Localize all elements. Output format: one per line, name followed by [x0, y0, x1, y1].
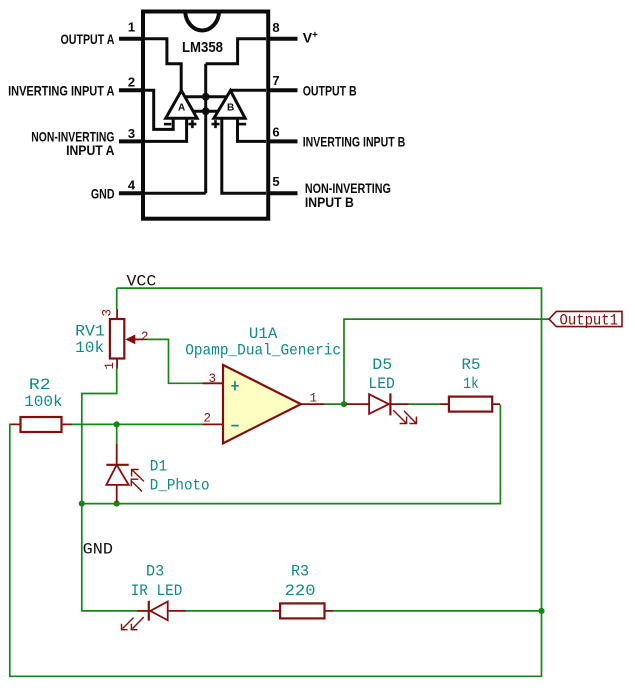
svg-text:INVERTING INPUT A: INVERTING INPUT A: [8, 83, 114, 99]
svg-text:INPUT B: INPUT B: [305, 194, 354, 210]
svg-text:LM358: LM358: [182, 39, 223, 56]
svg-text:A: A: [178, 103, 185, 114]
svg-text:2: 2: [128, 75, 135, 90]
svg-text:3: 3: [209, 372, 217, 386]
svg-text:R5: R5: [462, 356, 481, 374]
svg-text:5: 5: [272, 174, 279, 189]
svg-text:10k: 10k: [75, 339, 104, 357]
svg-text:GND: GND: [91, 185, 115, 201]
svg-text:D_Photo: D_Photo: [150, 477, 210, 495]
svg-text:6: 6: [272, 124, 279, 139]
svg-text:R3: R3: [291, 562, 309, 580]
svg-text:220: 220: [285, 582, 316, 600]
svg-text:INVERTING INPUT B: INVERTING INPUT B: [303, 133, 406, 149]
svg-text:VCC: VCC: [127, 273, 157, 291]
svg-text:R2: R2: [29, 376, 51, 394]
svg-text:LED: LED: [368, 375, 394, 393]
svg-text:4: 4: [128, 177, 136, 192]
svg-text:D5: D5: [372, 356, 392, 374]
svg-text:3: 3: [128, 126, 135, 141]
svg-text:B: B: [227, 103, 234, 114]
svg-text:IR LED: IR LED: [131, 582, 183, 600]
svg-text:Opamp_Dual_Generic: Opamp_Dual_Generic: [185, 342, 341, 360]
svg-text:1: 1: [128, 20, 135, 35]
svg-text:1k: 1k: [463, 375, 479, 393]
svg-text:GND: GND: [83, 541, 113, 559]
svg-text:OUTPUT A: OUTPUT A: [61, 31, 115, 47]
svg-text:1: 1: [103, 362, 117, 370]
svg-text:8: 8: [272, 20, 279, 35]
svg-text:U1A: U1A: [249, 325, 278, 343]
svg-text:2: 2: [204, 412, 212, 426]
svg-text:100k: 100k: [24, 393, 63, 411]
svg-text:D1: D1: [150, 458, 167, 476]
svg-text:2: 2: [141, 330, 149, 344]
svg-text:1: 1: [310, 392, 318, 406]
svg-text:D3: D3: [146, 562, 164, 580]
svg-text:3: 3: [101, 309, 115, 317]
svg-text:OUTPUT B: OUTPUT B: [303, 83, 357, 99]
svg-text:Output1: Output1: [560, 312, 619, 330]
svg-text:RV1: RV1: [75, 323, 105, 341]
svg-text:INPUT A: INPUT A: [66, 142, 114, 158]
svg-text:7: 7: [272, 73, 279, 88]
